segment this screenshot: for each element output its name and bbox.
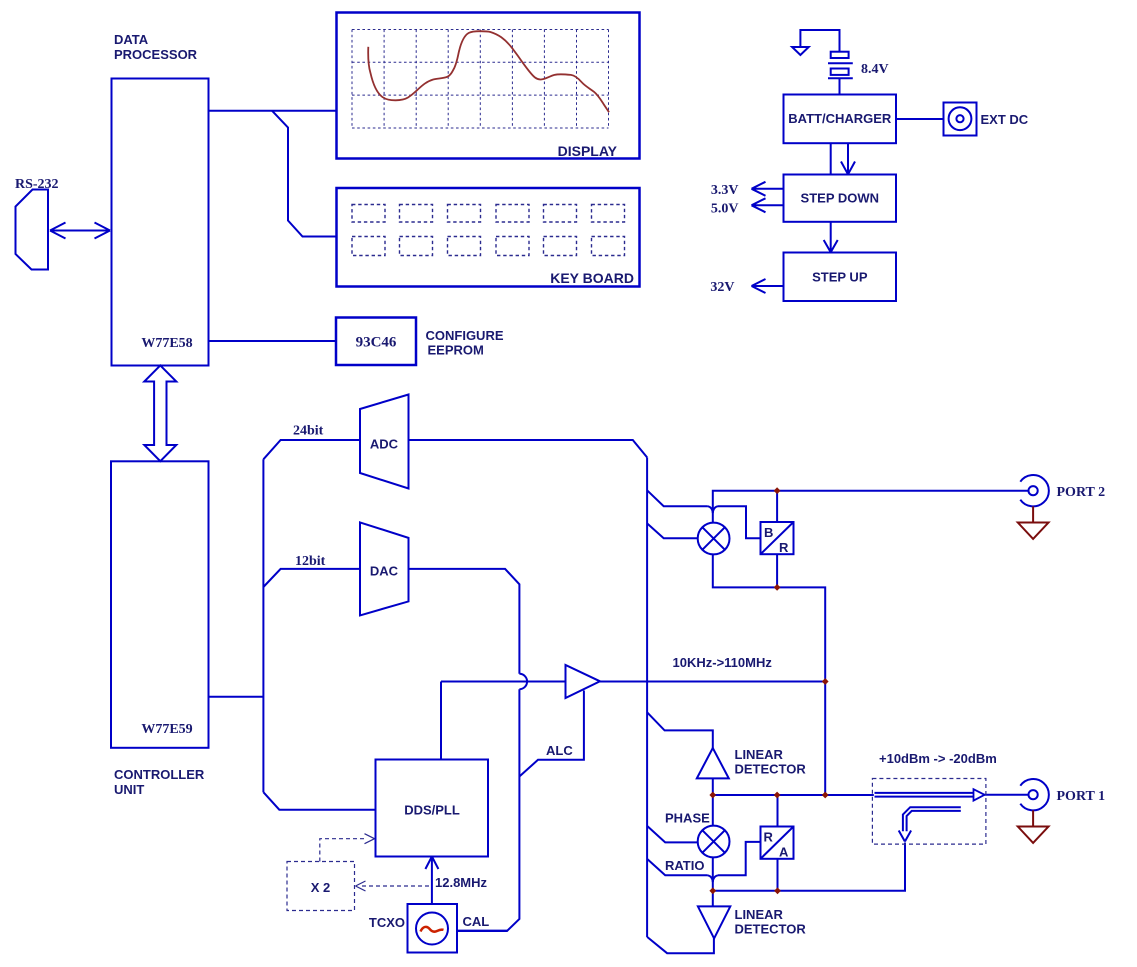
svg-text:PORT 1: PORT 1 [1057, 789, 1106, 804]
svg-text:KEY BOARD: KEY BOARD [550, 270, 634, 286]
wire RS-232 bidirectional bus [50, 223, 110, 239]
svg-text:DATA: DATA [114, 32, 149, 47]
battery BT1 plates [828, 52, 853, 95]
display grid dashed [352, 30, 609, 129]
svg-text:PROCESSOR: PROCESSOR [114, 47, 198, 62]
svg-text:12bit: 12bit [295, 554, 326, 569]
svg-text:DDS/PLL: DDS/PLL [404, 803, 460, 818]
wire bus tap to B/R input [647, 490, 760, 538]
wire R/A top to port1 line [777, 795, 779, 827]
wire hop over amp input [519, 674, 527, 689]
wire ALC feedback [519, 691, 584, 777]
bus arrow between processor and controller [144, 365, 176, 461]
wire lower detector stem [712, 891, 714, 907]
svg-text:+10dBm -> -20dBm: +10dBm -> -20dBm [879, 751, 997, 766]
svg-text:X 2: X 2 [311, 880, 331, 895]
svg-text:LINEAR: LINEAR [735, 747, 784, 762]
svg-text:24bit: 24bit [293, 424, 324, 439]
oscillator TCXO circle [416, 913, 448, 945]
dds U6 DDS/PLL box [376, 760, 489, 857]
wire fillets at B/R crossing [708, 506, 718, 513]
ground symbol port2 [1018, 506, 1049, 539]
oscillator TCXO sine wave [421, 927, 444, 932]
detector D2 lower linear detector triangle [698, 906, 730, 938]
wire bus to lower detector apex [647, 937, 714, 953]
oscillator TCXO box [408, 904, 458, 953]
wire 32V output arrow [752, 279, 784, 293]
wire 12.8MHz TCXO to DDS with arrow [425, 857, 438, 905]
port P1 connector center [1029, 790, 1038, 799]
svg-text:TCXO: TCXO [369, 915, 405, 930]
sampler B/R diagonal [761, 522, 794, 554]
keyboard box [337, 188, 640, 287]
svg-text:DAC: DAC [370, 564, 399, 579]
svg-text:STEP UP: STEP UP [812, 270, 868, 285]
coupler through arrowhead [974, 789, 985, 800]
svg-text:EEPROM: EEPROM [428, 343, 484, 358]
connector J2 rings [949, 107, 972, 130]
coupler through line double [875, 793, 974, 797]
wire charger to EXT DC [896, 118, 944, 120]
wire mixer2 top stem [712, 795, 714, 826]
svg-text:93C46: 93C46 [356, 335, 397, 351]
keyboard keys dashed [352, 205, 625, 256]
wire 3.3V output arrow [752, 182, 784, 196]
svg-text:LINEAR: LINEAR [735, 907, 784, 922]
wire signal bus vertical [646, 457, 648, 937]
coupler dashed box [872, 779, 986, 845]
wire ADC output [409, 440, 648, 457]
wire lower junction line to coupler [713, 843, 905, 891]
controller U2 CONTROLLER UNIT box [111, 461, 209, 748]
svg-text:RATIO: RATIO [665, 858, 704, 873]
svg-text:DETECTOR: DETECTOR [735, 922, 807, 937]
junction dots [709, 487, 828, 894]
coupler coupled arrowhead [899, 831, 911, 842]
port P1 connector outer arc [1020, 779, 1049, 810]
detector D1 upper linear detector triangle [697, 748, 729, 778]
svg-text:R: R [764, 830, 774, 845]
wire CAL output [457, 930, 507, 932]
svg-text:DISPLAY: DISPLAY [558, 143, 618, 159]
svg-text:32V: 32V [710, 280, 734, 295]
wire DDS output to amp [441, 682, 566, 760]
coupler coupled line double [903, 807, 961, 831]
connector J2 EXT DC box [944, 103, 977, 136]
X2 multiplier dashed box [287, 834, 432, 911]
wire mixer2 bottom stem [712, 857, 714, 890]
port P2 connector center [1029, 486, 1038, 495]
sampler R/A box [761, 827, 794, 859]
svg-text:PHASE: PHASE [665, 811, 710, 826]
wire bus tap PHASE to mixer2 [647, 826, 698, 843]
svg-text:R: R [779, 540, 789, 555]
regulator U8 STEP DOWN box [784, 175, 897, 222]
svg-text:ADC: ADC [370, 437, 399, 452]
wire fillets at mixer2 junction [708, 875, 718, 882]
wire bus tap to mixer1 [647, 523, 698, 538]
mixer M2 cross [702, 830, 724, 852]
ground symbol port1 [1018, 810, 1049, 843]
display trace curve [368, 31, 609, 112]
svg-text:CONFIGURE: CONFIGURE [426, 328, 504, 343]
connector J1 RS-232 [16, 190, 49, 270]
wire DAC output to ALC line [409, 569, 520, 931]
svg-text:CAL: CAL [463, 914, 490, 929]
wire dashed X2 to DDS with arrow [320, 839, 367, 862]
ground symbol at battery (blue) [792, 47, 809, 55]
wire charger to step down with arrow [831, 143, 855, 174]
wire amp output 10KHz line [600, 681, 825, 683]
processor U1 DATA PROCESSOR box [112, 79, 209, 366]
adc U4 ADC trapezoid [360, 395, 409, 489]
svg-text:A: A [779, 845, 789, 860]
amp A1 triangle [566, 665, 601, 698]
mixer M1 circle [698, 523, 730, 555]
wire bus tap to upper detector [647, 712, 713, 748]
wire 12bit to DAC [263, 569, 360, 587]
svg-text:W77E58: W77E58 [141, 336, 192, 351]
svg-text:W77E59: W77E59 [141, 722, 192, 737]
mixer M2 circle [698, 826, 730, 858]
sampler B/R box [761, 522, 794, 554]
wire bus tap RATIO [647, 859, 708, 875]
svg-text:CONTROLLER: CONTROLLER [114, 767, 205, 782]
wire dashed 12.8MHz to X2 with arrow [362, 885, 432, 887]
wire ratio line to R/A input [718, 842, 761, 875]
regulator U9 STEP UP box [784, 253, 897, 302]
svg-text:DETECTOR: DETECTOR [735, 762, 807, 777]
svg-text:ALC: ALC [546, 743, 573, 758]
wire port1 line [713, 794, 1029, 796]
wire 5.0V output arrow [752, 198, 784, 212]
wire R/A bottom [777, 859, 779, 891]
wire port2 line [713, 491, 1029, 523]
wire battery ground link [800, 30, 839, 52]
svg-text:EXT DC: EXT DC [981, 112, 1029, 127]
wire processor to keyboard [272, 111, 337, 237]
port P2 connector outer arc [1020, 475, 1049, 506]
svg-text:STEP DOWN: STEP DOWN [801, 191, 880, 206]
wire B/R top to port2 line [776, 491, 778, 522]
wire processor to display [209, 110, 337, 112]
svg-text:PORT 2: PORT 2 [1057, 485, 1106, 500]
svg-text:12.8MHz: 12.8MHz [435, 875, 488, 890]
wire controller to data bus [209, 696, 264, 698]
mixer M1 cross [702, 527, 724, 549]
svg-text:B: B [764, 525, 773, 540]
wire upper detector to port1 line [712, 778, 714, 795]
wire mixer1 output to B/R bottom [713, 554, 825, 795]
dac U5 DAC trapezoid [360, 522, 409, 615]
wire data bus vertical [262, 459, 264, 792]
svg-text:3.3V: 3.3V [711, 183, 739, 198]
wire 24bit to ADC [263, 440, 360, 459]
charger U7 BATT/CHARGER box [784, 95, 897, 144]
wire processor to eeprom [209, 340, 337, 342]
display box [337, 13, 640, 159]
svg-text:10KHz->110MHz: 10KHz->110MHz [673, 655, 773, 670]
sampler R/A diagonal [761, 827, 794, 859]
eeprom U3 93C46 box [336, 318, 416, 366]
svg-text:BATT/CHARGER: BATT/CHARGER [788, 111, 892, 126]
svg-text:RS-232: RS-232 [15, 177, 59, 192]
svg-text:UNIT: UNIT [114, 782, 144, 797]
svg-text:8.4V: 8.4V [861, 62, 889, 77]
svg-text:5.0V: 5.0V [711, 202, 739, 217]
wire dds bus [263, 792, 375, 810]
wire step down to step up arrow [824, 222, 838, 253]
